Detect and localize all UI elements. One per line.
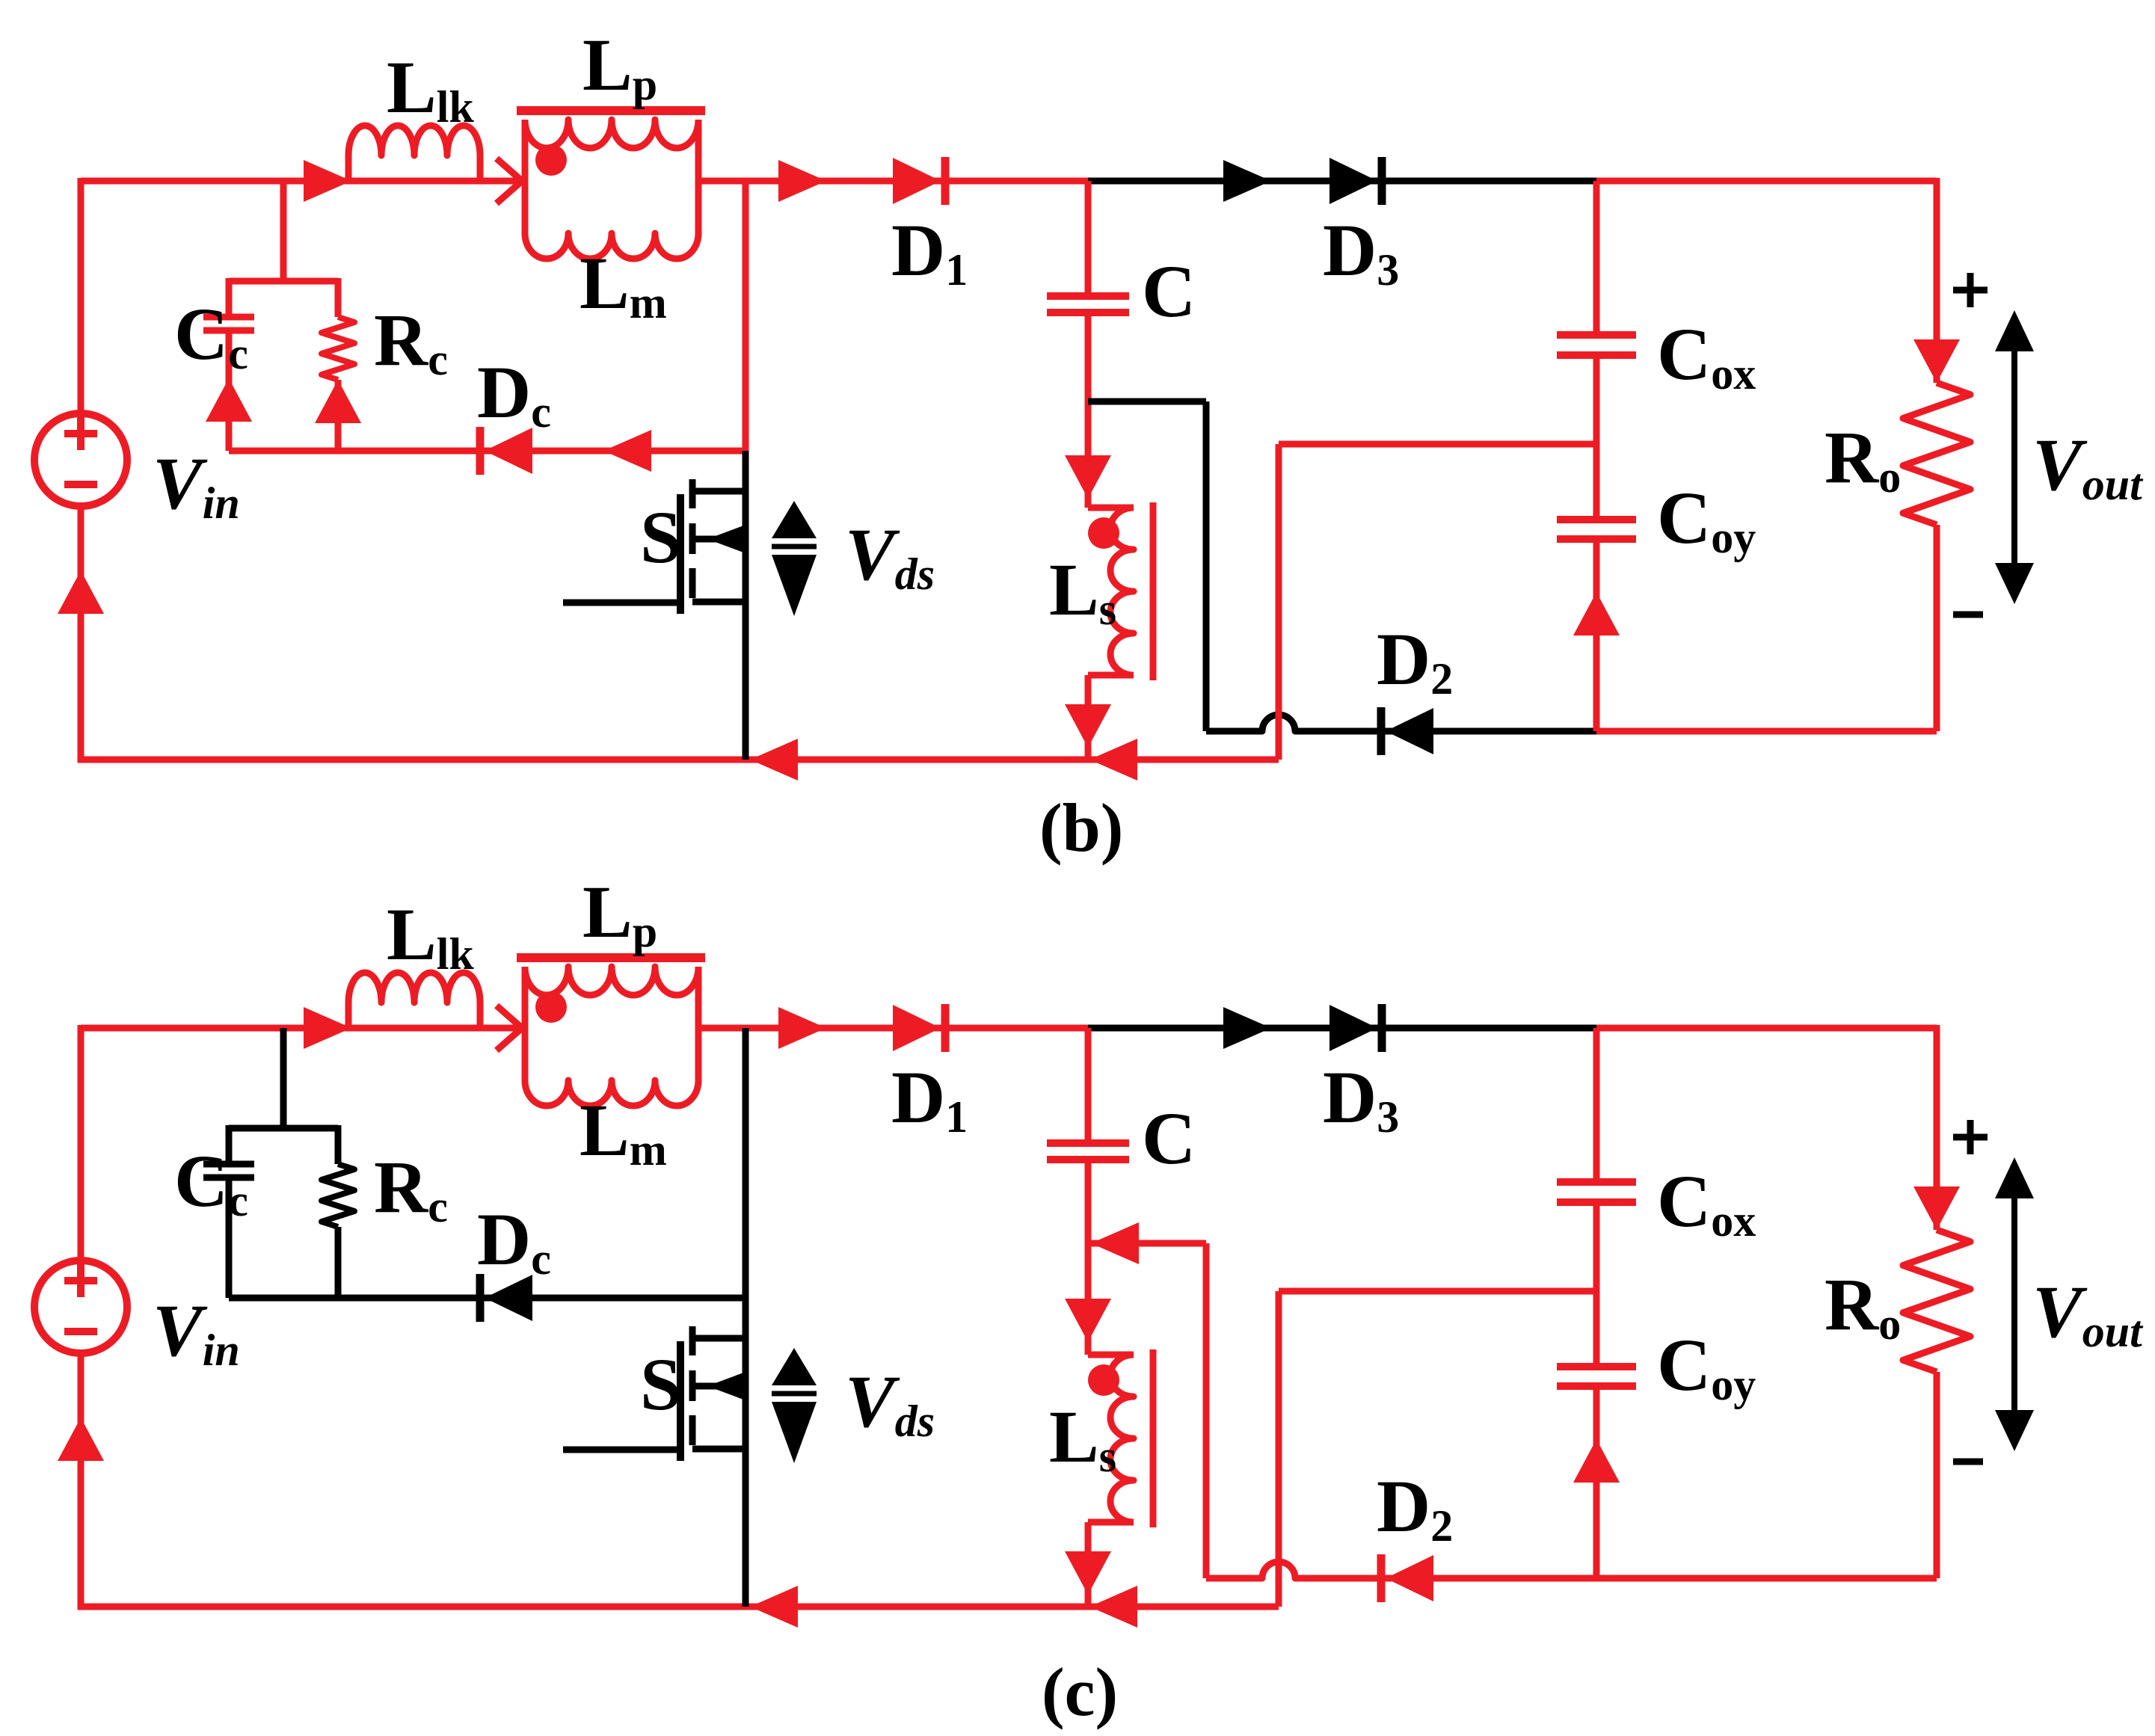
svg-text:(c): (c) bbox=[1042, 1654, 1118, 1730]
svg-text:(b): (b) bbox=[1039, 789, 1123, 866]
svg-text:S: S bbox=[640, 1343, 682, 1426]
svg-text:S: S bbox=[640, 496, 682, 579]
svg-text:C: C bbox=[1142, 1097, 1196, 1180]
svg-text:C: C bbox=[1142, 250, 1196, 333]
